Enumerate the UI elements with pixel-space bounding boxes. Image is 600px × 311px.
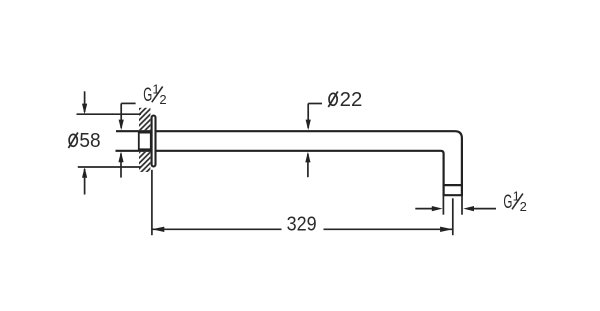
- svg-text:G: G: [503, 191, 512, 213]
- svg-text:2: 2: [159, 92, 166, 107]
- svg-text:58: 58: [79, 130, 100, 152]
- svg-text:329: 329: [287, 214, 317, 236]
- svg-text:G: G: [143, 84, 152, 106]
- svg-text:2: 2: [520, 199, 527, 214]
- svg-text:22: 22: [340, 89, 363, 111]
